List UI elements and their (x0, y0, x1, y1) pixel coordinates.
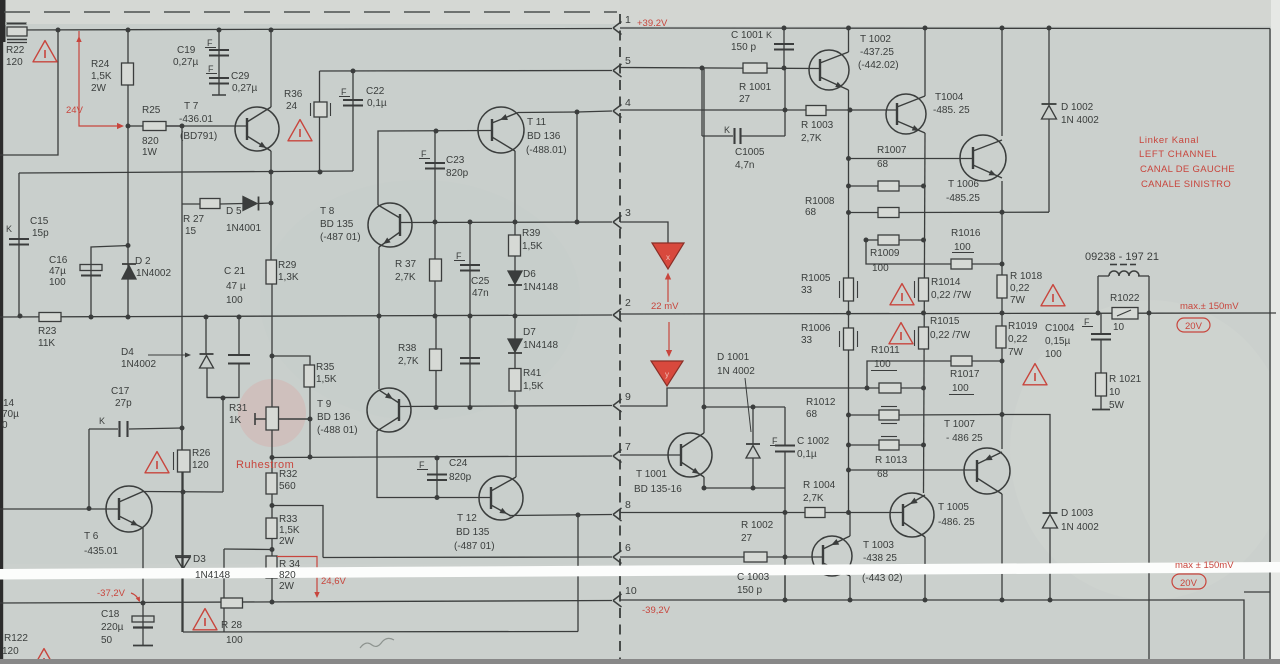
svg-text:T 1007: T 1007 (944, 419, 975, 430)
svg-text:-485.25: -485.25 (946, 193, 980, 204)
connector pin 1 (613, 22, 622, 35)
junction at 436,407.5 (434, 405, 439, 410)
junction at 578,515 (576, 513, 581, 518)
junction at 272,602 (270, 600, 275, 605)
capacitor C15 (9, 238, 29, 240)
svg-text:68: 68 (806, 409, 818, 420)
wire T8 collector riser (378, 131, 492, 206)
svg-text:R22: R22 (6, 45, 25, 56)
wire C1001 column (783, 28, 785, 68)
svg-text:D 2: D 2 (135, 256, 151, 267)
wire C19 C29 column (218, 30, 220, 95)
svg-text:R 37: R 37 (395, 259, 417, 270)
svg-text:7W: 7W (1010, 295, 1026, 306)
wire T6 base line (0, 508, 119, 510)
svg-text:max.± 150mV: max.± 150mV (1180, 301, 1239, 312)
svg-text:BD 135-16: BD 135-16 (634, 484, 682, 495)
junction at 435,316 (433, 314, 438, 319)
connector pin 10 (613, 594, 622, 607)
svg-text:100: 100 (226, 295, 243, 306)
svg-text:C24: C24 (449, 458, 468, 469)
red oval 20V bottom (1172, 574, 1206, 589)
junction at 1050,600 (1048, 598, 1053, 603)
warning triangle near R28 (193, 609, 217, 630)
wire T11 collector riser to line3 (576, 112, 578, 222)
svg-text:1,5K: 1,5K (522, 241, 543, 252)
svg-text:1N4002: 1N4002 (136, 268, 171, 279)
svg-text:T 1001: T 1001 (636, 469, 667, 480)
junction at 923.5,388 (921, 386, 926, 391)
junction at 435,222 (433, 220, 438, 225)
wire line3 left (T8 base) (399, 221, 612, 224)
svg-text:C1005: C1005 (735, 147, 765, 158)
svg-text:- 486 25: - 486 25 (946, 433, 983, 444)
svg-text:LEFT CHANNEL: LEFT CHANNEL (1139, 149, 1217, 160)
svg-text:0: 0 (2, 420, 8, 431)
junction at 1002,313 (1000, 311, 1005, 316)
wire R1016 row (866, 240, 951, 264)
junction at 848.5,313 (846, 311, 851, 316)
svg-text:K: K (766, 30, 772, 40)
junction at 925,600 (923, 598, 928, 603)
junction at 91,317 (89, 315, 94, 320)
svg-text:27: 27 (741, 533, 753, 544)
wire line2 left (0, 315, 612, 317)
svg-text:27p: 27p (115, 398, 132, 409)
junction at 577,222 (575, 220, 580, 225)
svg-text:1N4148: 1N4148 (523, 340, 558, 351)
svg-text:R1006: R1006 (801, 323, 831, 334)
svg-text:R 1004: R 1004 (803, 480, 836, 491)
svg-text:R26: R26 (192, 448, 211, 459)
junction at 1002,414.5 (1000, 412, 1005, 417)
warning triangle near R1019 (1023, 364, 1047, 385)
wire T1006 emitter rail x1002 (1001, 181, 1003, 449)
resistor R33 (266, 518, 277, 539)
left page edge (0, 0, 3, 659)
svg-text:R 1003: R 1003 (801, 120, 834, 131)
svg-text:C 1002: C 1002 (797, 436, 830, 447)
svg-text:C22: C22 (366, 86, 385, 97)
transistor T1001 (668, 433, 712, 477)
wire R1013 row (849, 444, 880, 446)
wire line3 right to test point (620, 222, 668, 244)
junction at 1149,313 (1147, 311, 1152, 316)
capacitor C25 (460, 264, 480, 266)
diode D4 (200, 353, 214, 355)
svg-text:BD 135: BD 135 (456, 527, 490, 538)
svg-text:2,7K: 2,7K (803, 493, 824, 504)
wire D4 branch (205, 317, 207, 354)
junction at 784,28 (782, 26, 787, 31)
junction at 1002,361 (1000, 359, 1005, 364)
resistor R1014 (919, 278, 929, 301)
dashed fold border top (4, 11, 617, 13)
svg-text:100: 100 (49, 277, 66, 288)
svg-text:0,22: 0,22 (1008, 334, 1028, 345)
svg-text:820p: 820p (449, 472, 472, 483)
svg-text:1N 4002: 1N 4002 (1061, 522, 1099, 533)
svg-text:4: 4 (625, 97, 631, 109)
wire T1006 base row (849, 158, 974, 160)
resistor R26 (178, 450, 191, 472)
junction at 1049,28 (1047, 26, 1052, 31)
svg-text:R38: R38 (398, 343, 417, 354)
svg-text:2W: 2W (91, 83, 107, 94)
junction at 206,317 (204, 315, 209, 320)
svg-text:820: 820 (142, 136, 159, 147)
svg-text:47n: 47n (472, 288, 489, 299)
wire T1004 collector (924, 28, 926, 96)
junction at 753,488 (751, 486, 756, 491)
wire T1007 emitter (1001, 494, 1003, 600)
junction at 785,512.5 (783, 510, 788, 515)
svg-text:R36: R36 (284, 89, 303, 100)
junction at 437,458 (435, 456, 440, 461)
svg-text:-37,2V: -37,2V (97, 588, 126, 599)
wire line4 right (620, 109, 897, 111)
resistor R1002 (744, 552, 767, 562)
warning triangle near R22 (33, 41, 57, 62)
svg-text:C17: C17 (111, 386, 130, 397)
junction at 848.5,212.5 (846, 210, 851, 215)
wire bias return riser x578 (577, 515, 579, 632)
junction at 128,30 (126, 28, 131, 33)
capacitor C1004 (1091, 333, 1111, 335)
capacitor C1001 (774, 43, 794, 45)
junction at 785,557 (783, 555, 788, 560)
wire C1005 right riser (784, 68, 786, 136)
transistor T9 mirrored (367, 388, 411, 432)
transistor T1002 (809, 50, 849, 90)
diode D7 (508, 339, 522, 352)
resistor R38 (430, 349, 442, 371)
junction at 1002,264 (1000, 262, 1005, 267)
wire T7 bias vertical x182 (181, 126, 183, 632)
capacitor C22 (343, 99, 363, 101)
svg-text:(BD791): (BD791) (180, 131, 217, 142)
svg-text:150 p: 150 p (737, 585, 762, 596)
svg-text:R33: R33 (279, 514, 298, 525)
junction at 219,30 (217, 28, 222, 33)
junction at 1098,313 (1096, 311, 1101, 316)
connector pin 8 (613, 508, 622, 521)
svg-text:24V: 24V (66, 105, 84, 116)
svg-text:0,1µ: 0,1µ (367, 98, 387, 109)
wire R33 R34 link (224, 548, 272, 551)
wire line1 +39.2V rail (620, 27, 1270, 30)
warning triangle near R26 (145, 452, 169, 473)
wire top rail left module (7, 29, 612, 31)
svg-text:R 34: R 34 (279, 559, 301, 570)
svg-text:T 7: T 7 (184, 101, 199, 112)
svg-text:R 1013: R 1013 (875, 455, 908, 466)
resistor R22 (7, 27, 27, 36)
transistor T8 mirrored (368, 203, 412, 247)
junction at 182,126 (180, 124, 185, 129)
svg-text:D 1002: D 1002 (1061, 102, 1094, 113)
wire line8 left T12 emitter (509, 515, 612, 516)
svg-text:D3: D3 (193, 554, 206, 565)
white scan split band (0, 562, 1280, 580)
resistor R36 (314, 102, 327, 117)
transistor T1005 (890, 493, 934, 537)
junction at 704,488 (702, 486, 707, 491)
svg-text:100: 100 (226, 635, 243, 646)
svg-text:K: K (6, 224, 12, 234)
junction at 310,419 (308, 417, 313, 422)
svg-text:R31: R31 (229, 403, 248, 414)
transistor T1003 (812, 536, 852, 576)
junction at 436,131 (434, 129, 439, 134)
svg-text:-486. 25: -486. 25 (938, 517, 975, 528)
wire C15 column (18, 173, 20, 316)
wire C18 column (142, 603, 144, 645)
wire line5 right (620, 68, 820, 69)
connector pin 9 (613, 399, 622, 412)
svg-text:R39: R39 (522, 228, 541, 239)
resistor R23 (39, 313, 61, 322)
inductor L output coil 09238-197 21 (1109, 271, 1139, 276)
wire C1003 column (784, 557, 786, 568)
pink wash behind trimmer R31 (238, 379, 306, 447)
wire T1001 emitter and D1001 bottom row (704, 477, 785, 488)
svg-text:(-442.02): (-442.02) (858, 60, 899, 71)
svg-text:T 11: T 11 (527, 117, 547, 128)
svg-text:R 27: R 27 (183, 214, 205, 225)
junction at 128,317 (126, 315, 131, 320)
wire T1001 collector and D1001 top row (703, 68, 705, 433)
red test triangle X (652, 243, 684, 269)
wire R36 column (319, 71, 321, 172)
svg-text:1N 4002: 1N 4002 (717, 366, 755, 377)
svg-text:120: 120 (192, 460, 209, 471)
resistor R1001 (743, 63, 767, 73)
junction at 850,600 (848, 598, 853, 603)
resistor R28 (221, 598, 243, 608)
resistor R1015 (919, 327, 929, 349)
resistor R1021 (1096, 373, 1107, 396)
junction at 785,600 (783, 598, 788, 603)
capacitor C17 (118, 421, 120, 437)
wire D7 R41 column (514, 316, 516, 408)
junction at 1002,212.2 (1000, 210, 1005, 215)
resistor R32 (266, 473, 277, 494)
connector pin 5 (613, 64, 622, 77)
resistor R29 (266, 260, 277, 284)
junction at 143,603 (141, 601, 146, 606)
right page margin (1271, 0, 1280, 659)
svg-text:1,5K: 1,5K (523, 381, 544, 392)
transistor T1006 (960, 135, 1006, 181)
svg-text:2,7K: 2,7K (395, 272, 416, 283)
svg-text:(-488 01): (-488 01) (317, 425, 358, 436)
wire C25 C26 column (469, 222, 471, 408)
diode D1001 (746, 443, 760, 445)
wire T7 collector (270, 30, 272, 107)
svg-text:D 1001: D 1001 (717, 352, 750, 363)
wire line4 left (518, 111, 612, 113)
wire T6 collector row (143, 491, 223, 494)
svg-text:7W: 7W (1008, 347, 1024, 358)
junction at 239,317 (237, 315, 242, 320)
red test triangle Y (651, 361, 683, 386)
svg-text:C 1003: C 1003 (737, 572, 770, 583)
svg-text:220µ: 220µ (101, 622, 124, 633)
red 24V measure arrow (76, 36, 81, 42)
svg-text:47µ: 47µ (49, 266, 66, 277)
svg-text:R 28: R 28 (221, 620, 243, 631)
junction at 271,172 (269, 170, 274, 175)
resistor R1016 (951, 259, 972, 269)
svg-text:0,22 /7W: 0,22 /7W (931, 290, 972, 301)
wire R24 column (127, 30, 129, 317)
junction at 785,110 (783, 108, 788, 113)
wire T1004 emitter rail x923 (924, 133, 926, 493)
junction at 1002,600 (1000, 598, 1005, 603)
resistor R1011 (879, 383, 901, 393)
svg-text:D7: D7 (523, 327, 536, 338)
wire right border vertical (1269, 29, 1271, 660)
svg-text:R1017: R1017 (950, 369, 980, 380)
svg-text:10: 10 (625, 585, 637, 597)
resistor R35 (304, 365, 315, 387)
wire D1003 branch (1002, 415, 1050, 514)
transistor T12 (479, 476, 523, 520)
wire R1022 inductor left riser (1097, 276, 1099, 313)
wire line5 left (320, 70, 613, 73)
junction at 272,457.5 (270, 455, 275, 460)
svg-text:R1022: R1022 (1110, 293, 1140, 304)
resistor R1022 (1112, 308, 1138, 320)
wire T8 emitter T9 collector column (378, 247, 380, 389)
svg-text:C1004: C1004 (1045, 323, 1075, 334)
capacitor C18 electrolytic (132, 616, 154, 622)
wire T11 emitter (514, 151, 516, 222)
svg-text:120: 120 (2, 646, 19, 657)
diode D6 (508, 271, 522, 284)
junction at 925,28 (923, 26, 928, 31)
junction at 848.5,158.5 (846, 156, 851, 161)
junction at 437,497.5 (435, 495, 440, 500)
resistor R1013 (879, 440, 899, 450)
wire R35 bottom to wiper (309, 386, 311, 457)
svg-text:R 1021: R 1021 (1109, 374, 1142, 385)
svg-text:CANALE SINISTRO: CANALE SINISTRO (1141, 179, 1231, 190)
wire C17 row (89, 428, 118, 430)
wire T1005 collector from rail (923, 492, 925, 494)
svg-text:C 21: C 21 (224, 266, 246, 277)
svg-text:R1019: R1019 (1008, 321, 1038, 332)
svg-text:R1005: R1005 (801, 273, 831, 284)
svg-text:(-488.01): (-488.01) (526, 145, 567, 156)
wire staircase R32 junction to line6 (272, 506, 323, 558)
svg-text:7: 7 (625, 441, 631, 453)
svg-text:820p: 820p (446, 168, 469, 179)
junction at 379,316 (377, 314, 382, 319)
wire C17 left riser (88, 429, 90, 509)
svg-text:F: F (419, 460, 425, 470)
svg-text:2,7K: 2,7K (398, 356, 419, 367)
wire inductor leads (1098, 275, 1109, 277)
wire C24 column (436, 458, 438, 498)
svg-text:47 µ: 47 µ (226, 281, 246, 292)
svg-text:1K: 1K (229, 415, 242, 426)
svg-text:F: F (456, 251, 462, 261)
wire line10 corner stub (1244, 591, 1270, 593)
svg-text:22 mV: 22 mV (651, 301, 679, 312)
svg-text:F: F (772, 436, 778, 446)
junction at 89,508.5 (87, 506, 92, 511)
junction at 848.5,470 (846, 468, 851, 473)
svg-text:68: 68 (877, 159, 889, 170)
svg-text:+39.2V: +39.2V (637, 18, 668, 29)
wire bias column x223 (222, 398, 224, 493)
wire line6 right (620, 556, 744, 558)
junction at 848.5,512.5 (846, 510, 851, 515)
svg-text:R122: R122 (4, 633, 28, 644)
svg-text:68: 68 (877, 469, 889, 480)
svg-text:R1007: R1007 (877, 145, 907, 156)
resistor R1006 (844, 328, 854, 350)
svg-text:10: 10 (1113, 322, 1125, 333)
wire D1002 column (1048, 28, 1050, 104)
svg-text:F: F (421, 149, 427, 159)
wire T1005 emitter (924, 537, 926, 600)
warning triangle near R36 (288, 120, 312, 141)
junction at 848.5,445 (846, 443, 851, 448)
svg-text:20V: 20V (1185, 321, 1203, 332)
svg-text:1,5K: 1,5K (279, 525, 300, 536)
svg-text:R1015: R1015 (930, 316, 960, 327)
svg-text:F: F (208, 64, 214, 74)
wire inductor right riser (1148, 276, 1150, 313)
junction at 515,222 (513, 220, 518, 225)
wire T9 emitter to T12 base (377, 431, 491, 498)
junction at 753,407 (751, 405, 756, 410)
transistor T6 (106, 486, 152, 532)
wire R31 R32 column (270, 171, 272, 173)
svg-text:1N4148: 1N4148 (195, 570, 230, 581)
svg-text:2,7K: 2,7K (801, 133, 822, 144)
svg-text:33: 33 (801, 285, 813, 296)
diode D5 (243, 197, 257, 211)
svg-text:100: 100 (872, 263, 889, 274)
svg-text:100: 100 (1045, 349, 1062, 360)
warning triangle near R1015 (889, 323, 913, 344)
svg-text:0,1µ: 0,1µ (797, 449, 817, 460)
svg-text:1,5K: 1,5K (316, 374, 337, 385)
transistor T7 (235, 107, 279, 151)
junction at 271,30 (269, 28, 274, 33)
warning triangle R122 partial (32, 649, 56, 664)
wire R1011 R1017 link (867, 361, 951, 388)
wire C1004 R1021 column (1100, 313, 1102, 334)
wire line2 output rail (620, 313, 1276, 314)
junction at 470,407.5 (468, 405, 473, 410)
svg-text:2: 2 (625, 297, 631, 309)
capacitor C26 (460, 357, 480, 359)
junction at 20,316 (18, 314, 23, 319)
capacitor C21 electrolytic (228, 354, 250, 356)
junction at 182,428 (180, 426, 185, 431)
svg-text:R25: R25 (142, 105, 161, 116)
capacitor C23 (425, 162, 445, 164)
svg-text:0,22: 0,22 (1010, 283, 1030, 294)
svg-text:F: F (1084, 317, 1090, 327)
wire C23 column (434, 131, 436, 222)
svg-text:8: 8 (625, 499, 631, 511)
